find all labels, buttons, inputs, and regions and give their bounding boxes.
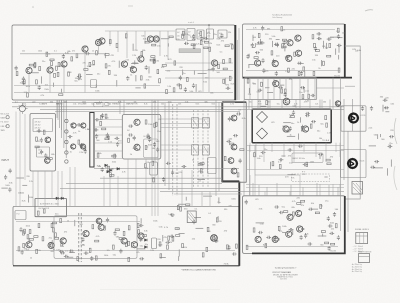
resistor R744 [206, 247, 208, 251]
resistor R213 [182, 31, 184, 35]
resistor R277 [331, 243, 335, 245]
vertical wire to bottom board W983 [145, 159, 147, 206]
mid horizontal wire E [160, 191, 344, 193]
resistor R719 [215, 238, 217, 242]
capacitor C630 [170, 235, 175, 238]
vertical wire B to B2 W894 [285, 78, 287, 100]
capacitor C413 [8, 187, 11, 192]
transistor Q317 [272, 61, 278, 67]
switch dashed line S16 [193, 110, 195, 188]
input jack J402 [6, 116, 9, 119]
wire stub right of board B [345, 85, 355, 87]
transistor Q43 [212, 60, 218, 66]
resistor R205 [193, 44, 195, 48]
transistor Q316 [286, 55, 292, 61]
mid horizontal wire B [100, 177, 222, 179]
resistor R639 [95, 240, 99, 242]
svg-text:12k: 12k [228, 32, 231, 34]
wire from limiter box down [255, 145, 300, 175]
resistor R696 [113, 245, 115, 249]
switch dashed line S1b [176, 104, 178, 196]
vertical wire to bottom board W972 [44, 171, 46, 206]
resistor R169 [218, 64, 220, 68]
wire W565 [287, 135, 295, 137]
resistor R736 [207, 227, 209, 231]
capacitor C799 [308, 208, 313, 211]
pickup input box in playback board [15, 211, 26, 220]
resistor R793 [253, 228, 255, 232]
resistor R290 [38, 224, 40, 228]
svg-text:710 A: 710 A [224, 263, 230, 266]
resistor R967 [77, 257, 79, 261]
scan smudge top right [365, 10, 373, 11]
vertical wire B to B2 W897 [307, 78, 309, 100]
resistor R778 [275, 239, 279, 241]
capacitor C591 [261, 151, 266, 154]
resistor R476 [154, 123, 156, 127]
box A rail drop wire W227 [109, 31, 111, 46]
vertical wire above output board W989 [264, 192, 266, 196]
resistor R162 [187, 77, 189, 81]
diode D627 [145, 239, 148, 242]
resistor R960 [36, 249, 38, 253]
bias oscillator coil box [187, 211, 196, 223]
resistor R806 [278, 226, 280, 230]
svg-text:150k: 150k [44, 89, 48, 91]
svg-text:47k 2k2: 47k 2k2 [35, 125, 41, 127]
resistor R473 [112, 155, 116, 157]
svg-text:50u: 50u [299, 92, 302, 94]
capacitor C544 [226, 140, 231, 143]
capacitor C112 [130, 66, 135, 69]
capacitor C336 [314, 46, 317, 51]
capacitor C580 [305, 114, 310, 117]
svg-text:100k: 100k [330, 223, 334, 225]
resistor R65 [56, 66, 58, 70]
svg-text:5.6k: 5.6k [260, 224, 264, 226]
resistor R814 [293, 212, 295, 216]
thick right edge of bottom-left board [238, 182, 240, 266]
transistor Q318 [255, 60, 261, 66]
transistor Q40 [138, 56, 144, 62]
resistor R59 [46, 52, 48, 56]
connector bundle wire W884 [58, 100, 60, 128]
vertical interconnect wire W4 [154, 100, 156, 163]
capacitor C280 [333, 212, 336, 217]
svg-text:LINE 1V: LINE 1V [1, 126, 8, 128]
resistor R740 [180, 207, 182, 211]
wire W246 [276, 39, 280, 41]
wire W646 [67, 256, 73, 258]
resistor R469 [97, 153, 99, 157]
resistor R288 [27, 235, 29, 239]
resistor R333 [254, 57, 258, 59]
capacitor C640 [19, 227, 22, 232]
svg-text:Oslo Norway: Oslo Norway [272, 17, 282, 19]
capacitor C441 [77, 123, 82, 126]
svg-text:2k2: 2k2 [22, 51, 25, 53]
resistor R676 [52, 222, 56, 224]
capacitor C458 [116, 142, 119, 147]
wire W657 [28, 238, 30, 243]
resistor R301 [209, 47, 211, 51]
svg-text:220: 220 [32, 101, 35, 103]
resistor R354 [281, 27, 283, 31]
transistor Q421 [45, 158, 51, 164]
transistor Q379 [273, 81, 279, 87]
wire W827 [377, 134, 379, 139]
vertical interconnect wire W13 [299, 100, 301, 110]
resistor R725 [202, 253, 204, 257]
wire W157 [224, 78, 226, 85]
svg-text:47k: 47k [136, 252, 139, 254]
capacitor C829 [370, 106, 373, 111]
svg-text:8k2: 8k2 [127, 130, 130, 132]
resistor R265 [323, 61, 325, 65]
svg-text:10k: 10k [253, 83, 256, 85]
wire W77 [32, 72, 39, 74]
svg-text:4.7k: 4.7k [164, 227, 168, 229]
bridge rectifier diamond 1 [257, 112, 268, 123]
svg-text:12k: 12k [342, 32, 345, 34]
resistor R586 [302, 95, 304, 99]
wire W391 [248, 88, 250, 93]
wire W272 [167, 43, 169, 46]
resistor R450 [100, 115, 102, 119]
resistor R68 [58, 62, 60, 66]
capacitor C176 [212, 67, 215, 72]
resistor R543 [237, 173, 239, 177]
resistor R751 [37, 211, 39, 215]
vertical wire into output board W924 [316, 183, 318, 196]
resistor R281 [325, 242, 329, 244]
resistor R387 [274, 81, 276, 85]
vertical wire B2 to limiter W904 [309, 100, 311, 110]
left vertical wire W996 [15, 112, 17, 207]
DIN connector pin P419 [65, 160, 68, 163]
resistor R394 [261, 82, 263, 86]
output transformer hatched box [352, 182, 363, 195]
capacitor C385 [257, 89, 262, 92]
wire W253 [254, 43, 256, 47]
svg-text:710 B: 710 B [334, 75, 340, 77]
capacitor C195 [220, 33, 223, 38]
capacitor C467 [115, 137, 120, 140]
vertical wire above output board W991 [299, 175, 301, 196]
capacitor C249 [257, 41, 262, 44]
capacitor C260 [327, 38, 332, 41]
vertical interconnect wire W6 [164, 103, 166, 186]
svg-text:25u: 25u [157, 131, 160, 133]
resistor R286 [29, 230, 31, 234]
resistor R664 [23, 231, 25, 235]
capacitor C826 [388, 145, 393, 148]
resistor R350 [312, 35, 314, 39]
vertical wire above output board W992 [319, 184, 321, 196]
transistor Q550 [302, 126, 308, 132]
horizontal wire head area W932 [160, 118, 210, 120]
svg-text:50u: 50u [277, 103, 280, 105]
vertical wire to bottom board W979 [109, 176, 111, 206]
capacitor C804 [328, 224, 333, 227]
left output driver inner box [54, 216, 137, 258]
vertical wire into output board W921 [276, 183, 278, 196]
svg-text:150k: 150k [148, 124, 152, 126]
driver sub-board outline below top-right board [244, 78, 317, 100]
svg-text:5.6k: 5.6k [98, 153, 102, 155]
resistor R278 [315, 212, 319, 214]
resistor R377 [294, 52, 296, 56]
wire W765 [28, 195, 30, 203]
resistor R338 [282, 44, 284, 48]
svg-text:150k: 150k [112, 161, 116, 163]
capacitor C367 [255, 51, 260, 54]
resistor R97 [89, 62, 91, 66]
capacitor C841 [370, 166, 375, 169]
vertical wire B2 to limiter W900 [259, 100, 261, 110]
transistor Q775 [255, 236, 261, 242]
transistor Q534 [231, 144, 237, 150]
capacitor C366 [317, 32, 322, 35]
bias oscillator alternate box [35, 199, 67, 217]
svg-text:5.6k: 5.6k [357, 50, 361, 52]
svg-text:12k: 12k [209, 43, 212, 45]
wire W605 [270, 162, 272, 169]
voltage table lower divider [359, 256, 370, 258]
wire W383 [267, 91, 273, 93]
resistor R300 [204, 47, 208, 49]
resistor R810 [301, 200, 305, 202]
transistor Q420 [45, 137, 51, 143]
resistor R718 [176, 235, 180, 237]
resistor R292 [123, 231, 125, 235]
right column wire W28 [340, 78, 342, 231]
capacitor C729 [232, 252, 237, 255]
right column wire W29 [343, 99, 345, 180]
capacitor C362 [261, 26, 264, 31]
connector bundle wire W887 [65, 100, 67, 158]
record/play switch wafer strip [90, 113, 94, 168]
vertical wire to playback board W758 [201, 192, 203, 207]
resistor R523 [200, 163, 204, 165]
transistor Q35 [82, 46, 88, 52]
voltage table upper divider v2 [363, 233, 365, 244]
svg-text:68k: 68k [292, 207, 295, 209]
diode D504 [105, 164, 108, 167]
wire W242 [104, 53, 106, 58]
resistor R146 [153, 59, 155, 63]
svg-text:100k: 100k [95, 91, 99, 93]
svg-text:50u: 50u [258, 65, 261, 67]
resistor R596 [279, 164, 281, 168]
wire W84 [95, 84, 97, 88]
capacitor C427 [44, 153, 47, 158]
resistor R457 [102, 128, 106, 130]
resistor R150 [223, 60, 225, 64]
wire W822 [369, 145, 376, 147]
box A vertical wire x209 [208, 25, 210, 92]
capacitor C423 [40, 138, 43, 143]
svg-text:100k: 100k [282, 226, 286, 228]
svg-text:8.2k: 8.2k [207, 33, 211, 35]
horizontal wire head area W934 [160, 127, 210, 129]
capacitor C694 [106, 218, 109, 223]
svg-text:8.2k: 8.2k [242, 118, 246, 120]
wire W832 [382, 105, 384, 112]
wire W524 [197, 178, 205, 180]
wire W271 [157, 36, 159, 43]
svg-text:10k: 10k [178, 104, 181, 106]
transistor emitter drop wire W223 [49, 74, 51, 93]
resistor R510 [152, 161, 154, 165]
svg-text:ALTERNATE A.C. BIAS: ALTERNATE A.C. BIAS [40, 203, 60, 206]
svg-text:25u: 25u [82, 245, 85, 247]
transistor Q36 [95, 39, 101, 45]
resistor R733 [227, 245, 229, 249]
transistor Q760 [96, 218, 102, 224]
svg-text:50u: 50u [74, 81, 77, 83]
wire W681 [140, 218, 142, 223]
vertical wire to bottom board W971 [37, 171, 39, 206]
resistor R512 [145, 164, 147, 168]
resistor R86 [93, 61, 95, 65]
left vertical wire W997 [24, 114, 26, 180]
box A right horizontal wire W305 [165, 62, 233, 64]
wire W613 [287, 174, 295, 176]
svg-text:8.2k: 8.2k [84, 46, 88, 48]
svg-text:50u: 50u [55, 214, 58, 216]
svg-text:2.2k: 2.2k [369, 128, 373, 130]
capacitor C597 [318, 153, 323, 156]
svg-text:25u: 25u [214, 34, 217, 36]
svg-text:1.5k: 1.5k [73, 104, 77, 106]
resistor R46 [57, 72, 59, 76]
resistor R548 [230, 143, 234, 145]
wire W802 [292, 230, 294, 235]
resistor R121 [105, 64, 107, 68]
vertical wire to bottom board W973 [51, 171, 53, 199]
resistor R629 [159, 242, 161, 246]
wire from driver board to output [316, 87, 344, 89]
svg-text:50u: 50u [317, 130, 320, 132]
wire W633 [179, 233, 185, 235]
wire W717 [218, 197, 220, 203]
svg-text:8.2k: 8.2k [108, 104, 112, 106]
capacitor C798 [289, 228, 294, 231]
resistor R655 [55, 233, 57, 237]
svg-text:50u: 50u [320, 124, 323, 126]
capacitor C785 [274, 205, 279, 208]
resistor R133 [150, 59, 154, 61]
resistor R89 [71, 57, 73, 61]
wire W74 [59, 65, 64, 67]
switch column in box G a [78, 213, 80, 262]
svg-text:47k: 47k [161, 67, 164, 69]
wire W380 [265, 87, 269, 89]
transistor Q551 [283, 98, 290, 105]
vertical wire B to B2 W893 [279, 78, 281, 100]
resistor R651 [89, 248, 91, 252]
vertical wire B to B2 W891 [267, 78, 269, 100]
svg-text:8.2k: 8.2k [203, 81, 207, 83]
svg-text:MONITOR: MONITOR [128, 104, 138, 106]
capacitor C461 [95, 134, 98, 139]
mid horizontal wire C [66, 182, 222, 184]
capacitor C689 [139, 257, 144, 260]
svg-text:2.2k: 2.2k [327, 133, 331, 135]
svg-text:68k: 68k [64, 101, 67, 103]
svg-text:330: 330 [126, 104, 129, 106]
wire W273 [161, 38, 169, 40]
svg-text:150k: 150k [29, 197, 33, 199]
capacitor C961 [119, 249, 122, 254]
switch dashed line S17 [197, 110, 199, 188]
capacitor C817 [274, 235, 277, 240]
equalization amplifier box [122, 115, 161, 160]
vertical wire limiter to bias W909 [263, 143, 265, 162]
wire W692 [162, 235, 164, 242]
transistor Q33 [47, 67, 53, 73]
wire W686 [158, 244, 162, 246]
scan speck top 2 [128, 6, 133, 7]
vertical interconnect wire W12 [267, 100, 269, 110]
svg-text:OSC 85 kHz: OSC 85 kHz [294, 158, 305, 160]
vertical wire into output board [249, 145, 251, 196]
bridge rectifier diamond 2 [257, 128, 268, 139]
wire W769 [16, 177, 24, 179]
tone potentiometer box [105, 102, 110, 105]
wire W131 [132, 62, 138, 64]
capacitor C811 [327, 216, 330, 221]
wire W598 [281, 155, 285, 157]
horizontal wire eq area W940 [94, 142, 122, 144]
capacitor C730 [165, 241, 170, 244]
capacitor C452 [101, 113, 104, 118]
svg-text:50u: 50u [87, 129, 90, 131]
vertical interconnect wire W9 [218, 102, 220, 191]
wire W381 [280, 84, 284, 86]
resistor R141 [174, 61, 176, 65]
vertical interconnect wire W7 [168, 103, 170, 190]
svg-text:710 B A: 710 B A [322, 139, 330, 142]
capacitor C347 [246, 54, 249, 59]
horizontal wire right mid W928 [246, 150, 344, 152]
resistor R678 [23, 243, 25, 247]
capacitor C69 [38, 85, 41, 90]
wire W617 [302, 173, 305, 175]
resistor R493 [155, 122, 157, 126]
svg-text:8.2k: 8.2k [118, 101, 122, 103]
power output transistor box upper [341, 106, 366, 131]
svg-text:4.7k: 4.7k [304, 101, 308, 103]
transistor emitter drop wire W222 [28, 74, 30, 93]
wire W370 [326, 43, 328, 49]
capacitor C398 [284, 92, 287, 97]
coil hatch line W27 [204, 146, 209, 154]
svg-text:50u: 50u [249, 101, 252, 103]
vertical wire above output board W993 [332, 184, 334, 196]
svg-text:100k: 100k [148, 145, 152, 147]
capacitor C480 [148, 137, 151, 142]
svg-text:OC26: OC26 [360, 161, 365, 163]
diode D755 [61, 197, 64, 200]
wire W159 [208, 68, 212, 70]
capacitor C422 [40, 150, 43, 155]
resistor R683 [119, 238, 123, 240]
capacitor C776 [300, 235, 303, 240]
wire W791 [282, 231, 286, 233]
resistor R52 [51, 62, 53, 66]
